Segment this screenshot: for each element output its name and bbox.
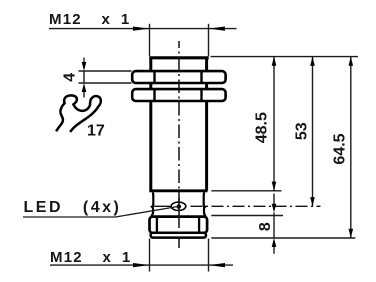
svg-text:LED (4x): LED (4x) xyxy=(24,199,122,216)
svg-text:64.5: 64.5 xyxy=(332,133,349,164)
svg-text:M12 x 1: M12 x 1 xyxy=(49,11,130,28)
svg-text:M12 x 1: M12 x 1 xyxy=(50,249,131,266)
svg-text:53: 53 xyxy=(294,122,311,140)
svg-text:48.5: 48.5 xyxy=(254,112,271,143)
svg-text:4: 4 xyxy=(62,73,79,82)
svg-text:17: 17 xyxy=(87,122,105,139)
svg-text:8: 8 xyxy=(257,222,274,231)
